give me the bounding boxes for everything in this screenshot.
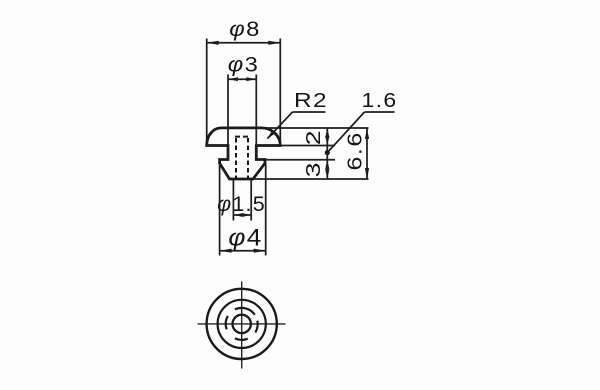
R2 leader: shoulder line — [293, 111, 326, 113]
extension line at part bottom (right side) — [253, 178, 369, 180]
svg-text:3: 3 — [302, 161, 324, 177]
svg-text:R2: R2 — [294, 89, 328, 112]
dimension phi1.5: right arrow — [242, 213, 251, 217]
svg-text:φ3: φ3 — [228, 53, 259, 76]
svg-text:2: 2 — [302, 129, 324, 145]
svg-text:φ8: φ8 — [229, 17, 260, 40]
extension line at groove bottom (right side) — [265, 159, 335, 161]
dimension phi8: right arrow — [268, 41, 280, 45]
extension line at head top (right side) — [263, 127, 369, 129]
1.6 leader: shoulder line — [365, 111, 395, 113]
dimension phi1.5: right extension line — [250, 179, 252, 221]
1.6 leader: dot — [325, 150, 330, 155]
bottom view: vertical centerline — [241, 282, 243, 369]
dimension phi1.5: dimension line — [233, 214, 251, 216]
extension line at head bottom (right side) — [280, 145, 335, 147]
bottom view: broken circle arc right — [255, 321, 257, 333]
dimension phi4: right extension line — [265, 164, 267, 256]
dimension phi4: left arrow — [220, 249, 232, 253]
R2 leader: arrowhead — [267, 130, 276, 140]
dimension 2 and 3: shared dimension line — [326, 128, 328, 179]
dimension 6.6: top arrow — [365, 128, 369, 139]
bottom view: broken circle arc top — [235, 308, 255, 315]
hidden hole dashed line left — [235, 138, 237, 179]
dimension phi8: right extension line — [279, 39, 281, 146]
dimension phi1.5: left extension line — [232, 179, 234, 221]
hidden hole top dash — [235, 136, 249, 138]
svg-text:1.6: 1.6 — [362, 88, 398, 112]
svg-text:6.6: 6.6 — [344, 131, 366, 170]
dimension phi3: right extension line — [255, 75, 257, 160]
bottom view: outer circle (head dia 8) — [207, 289, 277, 359]
svg-text:φ4: φ4 — [228, 224, 262, 251]
svg-text:φ1.5: φ1.5 — [217, 192, 266, 216]
dimension phi8: left arrow — [207, 41, 219, 45]
bottom view: inner circle (hole) — [233, 315, 251, 333]
dimension phi8: left extension line — [206, 39, 208, 146]
dimension 6.6: bottom arrow — [365, 168, 369, 179]
dimension phi3: dimension line — [228, 78, 256, 80]
hidden hole dashed line right — [247, 138, 249, 179]
dimension phi3: right arrow — [246, 77, 256, 81]
dimension phi4: right arrow — [254, 249, 266, 253]
dimension phi3: left extension line — [227, 75, 229, 160]
dimension 2: bottom arrow — [325, 136, 329, 146]
dimension 3: bottom arrow — [325, 170, 329, 180]
dimension phi4: left extension line — [219, 164, 221, 256]
front view: grommet cross-section outline — [207, 128, 281, 179]
bottom view: broken circle arc left — [226, 316, 228, 330]
dimension 3: top arrow — [325, 160, 329, 170]
dimension 6.6: dimension line — [366, 128, 368, 179]
1.6 leader: diagonal line — [327, 112, 364, 153]
dimension phi8: dimension line — [207, 42, 281, 44]
bottom view: broken circle arc bottom — [235, 338, 248, 339]
bottom view: horizontal centerline — [198, 323, 286, 325]
dimension phi3: left arrow — [228, 77, 238, 81]
dimension 2: top arrow — [325, 128, 329, 138]
dimension phi1.5: left arrow — [233, 213, 242, 217]
R2 leader: diagonal line — [268, 112, 293, 139]
bottom view: middle circle — [218, 300, 266, 348]
dimension phi4: dimension line — [220, 250, 266, 252]
